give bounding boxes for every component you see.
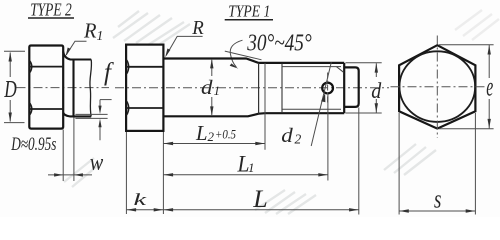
dimension d1 (211, 59, 213, 116)
extension line from bearing face (162, 132, 164, 214)
svg-text:e: e (486, 71, 493, 101)
svg-text:k: k (134, 190, 147, 209)
svg-text:L: L (195, 121, 207, 145)
watermark blobs (64, 10, 499, 214)
head chamfer arcs (type 1) (127, 60, 129, 115)
svg-text:w: w (90, 150, 104, 176)
head facet lines (type 2) (29, 67, 63, 109)
svg-text:d: d (201, 78, 213, 99)
svg-text:D: D (4, 77, 17, 103)
hex horizontal centerline (391, 86, 485, 88)
label d1 (201, 78, 220, 99)
extension line L1 right (hole center) (327, 94, 329, 181)
svg-text:1: 1 (214, 83, 221, 98)
inscribed circle (399, 51, 475, 122)
svg-text:d: d (371, 78, 382, 103)
chamfer angle reference line (225, 51, 262, 60)
label TYPE 2 (28, 0, 74, 20)
hexagon outline (399, 45, 475, 128)
dimension L1 (163, 174, 328, 176)
svg-text:2: 2 (208, 129, 215, 144)
dimension L (163, 209, 358, 211)
svg-text:30°~45°: 30°~45° (246, 31, 312, 57)
svg-text:R: R (83, 19, 97, 43)
svg-text:1: 1 (97, 28, 104, 43)
dimension f (75, 100, 111, 141)
centerline (type 2 axis) (17, 87, 110, 89)
dimension d (346, 63, 382, 113)
hex vertical centerline (436, 36, 438, 139)
washer face (type 2) (63, 52, 91, 117)
thread crest thin lines (282, 67, 344, 110)
hole vertical centerline (327, 73, 329, 104)
extension line head left (125, 132, 127, 214)
extension line L2 right (264, 63, 266, 150)
thread start line (281, 63, 283, 113)
dimension e (439, 45, 494, 129)
dimension L2 (163, 143, 265, 145)
break line (wavy edge of shank stub) (90, 60, 92, 117)
dimension k (126, 209, 163, 211)
svg-text:d: d (281, 126, 293, 147)
svg-text:+0.5: +0.5 (215, 126, 236, 141)
svg-text:s: s (434, 184, 441, 213)
leader arc for chamfer angle (230, 40, 242, 67)
svg-text:f: f (104, 59, 114, 86)
svg-text:TYPE 2: TYPE 2 (30, 0, 72, 20)
label d2 (281, 126, 301, 147)
label L1 (237, 151, 255, 176)
hex head (type 1) (126, 45, 163, 131)
threaded mid-section (265, 63, 344, 113)
svg-text:2: 2 (295, 131, 302, 146)
extension line L right (bolt end) (358, 108, 360, 215)
dimension D (4, 51, 25, 122)
dimension s (399, 113, 475, 215)
svg-text:D≈0.95s: D≈0.95s (10, 135, 56, 155)
label L2 +0.5 (195, 121, 236, 145)
svg-text:R: R (191, 17, 203, 39)
label R1 (83, 19, 103, 44)
taper end edge line (258, 63, 260, 114)
svg-text:L: L (252, 186, 268, 213)
leader R1 (66, 41, 86, 55)
svg-text:1: 1 (248, 160, 255, 175)
leader R (166, 36, 202, 55)
hex head (type 2) (29, 46, 63, 129)
svg-text:TYPE 1: TYPE 1 (228, 2, 270, 21)
head chamfer arcs (type 2) (30, 61, 32, 115)
cylindrical tip (344, 67, 359, 107)
dimension w (48, 118, 92, 182)
label TYPE 1 (225, 2, 273, 21)
main centerline (bolt axis) (115, 87, 389, 89)
leader d2 (311, 62, 331, 146)
shank d1 (163, 59, 265, 117)
cotter pin hole d2 (322, 83, 333, 94)
head facet lines (type 1) (126, 67, 163, 108)
